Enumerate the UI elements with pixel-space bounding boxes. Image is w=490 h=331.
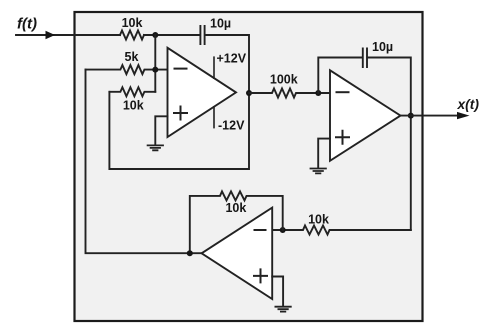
op-amp U2 [330,70,401,161]
wire 5k left drop (from node B to bottom op-amp) [86,70,202,254]
svg-text:10k: 10k [225,201,246,215]
wire node A down to inverting node [154,35,156,92]
op-amp U3 (points left) [202,208,273,299]
node A junction [152,32,158,38]
resistor R5 10k (bottom input) [272,226,411,235]
U3 minus sign [255,229,266,231]
wire U3 feedback loop [190,191,283,253]
U1 plus sign [174,107,187,120]
U1 +12V pin [213,57,215,78]
svg-text:10µ: 10µ [372,40,393,54]
wire cap C2 to U2 output [368,58,411,231]
resistor R3 10k [109,87,155,96]
node U3 output junction [187,250,193,256]
svg-text:10k: 10k [122,16,143,30]
wire cap C1 to op-amp U1 output [205,35,249,93]
capacitor C2 10u plates [363,49,367,68]
resistor R4 100k [249,89,330,98]
U3 plus sign [254,269,267,282]
svg-text:100k: 100k [270,73,298,87]
svg-text:x(t): x(t) [457,97,480,112]
svg-text:+12V: +12V [217,51,247,65]
capacitor C1 10u plates [200,26,204,44]
node U2 output junction [408,113,414,119]
svg-text:5k: 5k [125,50,139,64]
ground U1 [148,145,163,150]
svg-text:10k: 10k [308,213,329,227]
U2 plus sign [336,131,349,144]
input arrowhead [46,31,56,39]
output arrowhead [457,112,470,119]
U1 -12V pin [213,107,215,128]
wire resistor R1 to node A and cap C1 [144,34,200,36]
U2 minus sign [337,91,349,93]
ground U3 [275,307,290,312]
wire U2 feedback up left [318,58,362,94]
node U2 inverting junction [315,90,321,96]
wire input f(t) [16,34,120,36]
wire output x(t) [401,115,461,117]
wire U3 plus input to ground [272,277,283,307]
node U3 inverting junction [280,227,286,233]
svg-text:10k: 10k [123,99,144,113]
resistor R1 10k [120,31,144,40]
op-amp U1 [168,48,237,137]
resistor R2 5k [86,65,168,74]
U1 minus sign [175,68,187,70]
node U1 output junction [246,90,252,96]
node B junction [152,67,158,73]
wire feedback loop under U1 [109,92,249,169]
svg-text:-12V: -12V [218,119,245,133]
svg-text:10µ: 10µ [210,17,231,31]
ground U2 [311,169,326,174]
wire U1 plus input to ground [155,116,167,145]
wire U2 plus input to ground [318,139,330,169]
outer system box [75,12,423,321]
svg-text:f(t): f(t) [17,16,37,33]
